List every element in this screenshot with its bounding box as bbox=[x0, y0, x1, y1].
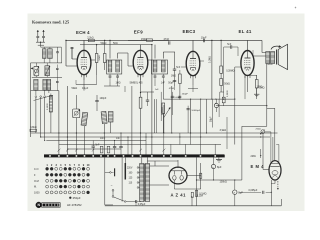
svg-text:1nF: 1nF bbox=[155, 89, 159, 91]
wire CV leads bbox=[35, 63, 37, 66]
svg-text:1MΩ: 1MΩ bbox=[171, 76, 176, 78]
capacitor C 0005 bbox=[262, 191, 264, 194]
svg-text:250μF: 250μF bbox=[73, 196, 81, 200]
svg-text:0,05μF: 0,05μF bbox=[138, 203, 146, 206]
fuse F1 bbox=[200, 173, 202, 178]
wire IF1 bottom bbox=[109, 82, 111, 86]
coil L5 osc bbox=[108, 112, 113, 123]
wire drops to bar bbox=[120, 133, 122, 145]
svg-text:50kΩ: 50kΩ bbox=[101, 42, 107, 45]
wire screen bus bbox=[80, 44, 152, 46]
tube U2 EF9 bbox=[133, 50, 148, 74]
capacitor C47 inline bbox=[168, 41, 170, 44]
svg-text:50pF: 50pF bbox=[168, 83, 174, 85]
speaker LS1 bbox=[276, 50, 278, 65]
capacitor C det cluster1 bbox=[171, 95, 174, 97]
wire U2 cathode bbox=[140, 80, 142, 92]
svg-text:ECH 4: ECH 4 bbox=[76, 30, 90, 35]
resistor R plate EBC bbox=[220, 66, 223, 73]
resistor R cath EL41 bbox=[255, 80, 258, 89]
logo box bbox=[42, 203, 61, 208]
resistor R osc2 bbox=[103, 54, 106, 63]
chassis bar gaps bbox=[49, 155, 51, 157]
svg-text:0,28MΩ: 0,28MΩ bbox=[226, 71, 234, 73]
svg-text:50kΩ: 50kΩ bbox=[99, 55, 101, 61]
resistor R cath EF9 bbox=[139, 97, 142, 108]
electrolytic can bbox=[124, 163, 126, 180]
wire T1 top bbox=[141, 158, 143, 164]
capacitor C det cluster2 bbox=[178, 95, 181, 97]
capacitor trim L1 bbox=[57, 47, 59, 52]
resistor R grid EBC bbox=[222, 97, 225, 103]
chassis bus bar bbox=[44, 154, 225, 157]
svg-text:0,1μF: 0,1μF bbox=[82, 87, 89, 90]
svg-text:8μF: 8μF bbox=[217, 165, 222, 169]
svg-text:50kΩ: 50kΩ bbox=[72, 87, 78, 90]
wire bus y133 bbox=[31, 132, 278, 134]
wire bus y137 bbox=[40, 136, 270, 138]
wire verticals mid bbox=[151, 45, 153, 155]
wire el41 plate bbox=[247, 39, 249, 41]
transformer IF2 sec bbox=[161, 60, 165, 72]
resistor R2 6.8k bbox=[30, 129, 37, 131]
svg-text:10000pF: 10000pF bbox=[191, 110, 200, 112]
wire mains drop bbox=[104, 157, 106, 205]
transformer L1 primary bbox=[43, 49, 47, 59]
svg-text:100pF: 100pF bbox=[100, 97, 107, 100]
node antenna junction bbox=[40, 42, 41, 43]
svg-text:250pF: 250pF bbox=[182, 94, 189, 96]
capacitor C 100p bbox=[95, 100, 98, 102]
potentiometer VOL bbox=[190, 99, 192, 133]
svg-text:SIMBOL 455: SIMBOL 455 bbox=[130, 83, 144, 85]
capacitor C det cluster3 bbox=[187, 108, 190, 110]
transformer L1 secondary bbox=[48, 49, 53, 59]
svg-text:10nF: 10nF bbox=[201, 36, 207, 39]
logo emblem bbox=[36, 202, 42, 208]
variable capacitor CV2gang bbox=[45, 66, 50, 76]
switch SW mains bbox=[112, 196, 114, 198]
electrolytic C8a bbox=[211, 164, 215, 168]
wire under U1 bbox=[76, 84, 97, 86]
capacitor C row2 bbox=[119, 146, 122, 148]
transformer T2 output bbox=[266, 52, 270, 64]
resistor R 150 inline bbox=[147, 39, 153, 42]
resistor R vol bbox=[179, 74, 182, 84]
svg-text:50μF: 50μF bbox=[210, 116, 213, 122]
svg-text:50kΩ: 50kΩ bbox=[224, 83, 230, 85]
svg-text:EBC3: EBC3 bbox=[183, 29, 196, 34]
svg-text:47nF: 47nF bbox=[164, 38, 170, 41]
wire y105 to eye bbox=[216, 105, 267, 107]
wire top bus bbox=[66, 39, 262, 41]
svg-text:5nF: 5nF bbox=[176, 67, 181, 69]
wire det drops bbox=[171, 86, 173, 133]
transformer IF1 box bbox=[107, 60, 122, 74]
capacitor antenna series bbox=[36, 36, 39, 38]
wire U3 cath net bbox=[192, 85, 194, 92]
svg-text:1nF: 1nF bbox=[116, 138, 121, 140]
capacitor C mains bbox=[135, 200, 137, 203]
svg-text:C.O: C.O bbox=[34, 168, 39, 171]
wire bottom run bbox=[270, 180, 272, 206]
wire IF2 top bbox=[154, 45, 156, 59]
resistor R1 0.1M vertical bbox=[49, 96, 52, 113]
wire U2 pins bbox=[140, 45, 142, 51]
svg-text:Kosmovox mod. 125: Kosmovox mod. 125 bbox=[32, 20, 69, 25]
transformer IF2 pri bbox=[153, 60, 157, 72]
resistor R det bbox=[162, 103, 165, 114]
wire to coil top bbox=[40, 42, 42, 45]
tube U4 EL41 bbox=[241, 51, 254, 76]
coil L4 osc bbox=[101, 111, 107, 123]
transformer T1 power bbox=[140, 164, 144, 202]
plug P1 bbox=[112, 189, 114, 191]
svg-text:~: ~ bbox=[111, 184, 113, 188]
wire osc vertical bbox=[58, 91, 60, 155]
capacitor C af couple bbox=[202, 39, 204, 43]
tube U1 ECH4 bbox=[77, 50, 91, 74]
tube U3 EBC3 bbox=[186, 51, 200, 75]
wire grid left bbox=[66, 65, 77, 67]
wire U4 pins bbox=[247, 40, 249, 50]
svg-text:5nF: 5nF bbox=[227, 44, 232, 46]
capacitor C osc grid bbox=[71, 47, 74, 49]
wire lower right net bbox=[196, 157, 198, 180]
svg-text:47kΩ: 47kΩ bbox=[169, 88, 175, 90]
svg-text:8μF: 8μF bbox=[238, 191, 243, 195]
svg-text:1MΩ: 1MΩ bbox=[259, 87, 264, 90]
coil L3 osc bbox=[81, 112, 88, 126]
transformer T1 taps bbox=[137, 167, 139, 169]
svg-text:50Ω: 50Ω bbox=[113, 42, 118, 45]
variable capacitor CV1 bbox=[34, 66, 39, 76]
wire mains bottom bbox=[135, 202, 137, 205]
wire cv3 bbox=[75, 95, 77, 109]
potentiometer eye 25k bbox=[242, 125, 267, 127]
capacitor C grid EL41 bbox=[230, 45, 232, 48]
svg-text:1MΩ: 1MΩ bbox=[116, 83, 121, 85]
wire af vertical bbox=[211, 40, 213, 99]
wire bus y149 bbox=[67, 148, 121, 150]
speaker field arrow bbox=[271, 46, 280, 49]
svg-text:EF9: EF9 bbox=[134, 30, 143, 35]
svg-text:100kΩ: 100kΩ bbox=[220, 181, 227, 184]
wire L1 bottoms bbox=[43, 58, 45, 63]
capacitor C det1 bbox=[173, 68, 176, 70]
wire IF2 sec drop bbox=[162, 80, 164, 99]
svg-text:E M 4: E M 4 bbox=[251, 164, 265, 169]
svg-text:A Z 41: A Z 41 bbox=[171, 192, 187, 197]
svg-text:10nF: 10nF bbox=[100, 138, 106, 140]
electrolytic C8b bbox=[233, 190, 237, 194]
wire em4 below bbox=[274, 180, 276, 184]
capacitor C det2 bbox=[173, 80, 176, 82]
wire L2 bottom drops bbox=[35, 90, 37, 95]
capacitor trim mid bbox=[56, 65, 58, 69]
transformer IF2 box bbox=[152, 60, 168, 74]
svg-text:EL 41: EL 41 bbox=[239, 29, 252, 34]
svg-text:M.: M. bbox=[34, 186, 37, 189]
svg-text:3,9kΩ: 3,9kΩ bbox=[220, 129, 227, 132]
electrolytic C cath bbox=[214, 103, 218, 107]
svg-text:220V: 220V bbox=[127, 168, 133, 170]
svg-text:2MΩ: 2MΩ bbox=[251, 155, 256, 158]
wire em4 leads bbox=[272, 137, 274, 162]
svg-text:1,15A: 1,15A bbox=[197, 194, 204, 197]
svg-text:0,1MΩ: 0,1MΩ bbox=[47, 103, 49, 110]
capacitor IF2 trim bbox=[154, 75, 157, 77]
svg-text:HF 4784/52: HF 4784/52 bbox=[67, 203, 82, 207]
wire U1 cath bbox=[83, 80, 85, 91]
wire U1 pins bbox=[83, 40, 85, 50]
transformer IF1 sec bbox=[116, 60, 120, 72]
wire bus y140 bbox=[46, 140, 146, 142]
svg-text:1000: 1000 bbox=[34, 192, 40, 195]
capacitor trim L2 bbox=[56, 77, 58, 81]
tube U5 AZ41 bbox=[169, 167, 187, 184]
wire osc drops bbox=[75, 126, 77, 155]
node bus dots bbox=[58, 132, 59, 133]
wire az41 bottom bbox=[173, 180, 175, 189]
ground el41 bbox=[254, 93, 259, 95]
wire det bus bbox=[163, 98, 235, 100]
svg-text:O.M: O.M bbox=[34, 180, 39, 183]
svg-text:2500Ω: 2500Ω bbox=[266, 64, 273, 66]
svg-text:+: + bbox=[295, 6, 297, 10]
capacitor IF1 trim bbox=[109, 75, 112, 77]
tube U6 EM4 bbox=[269, 161, 281, 180]
switch wiper ticks bbox=[58, 149, 61, 152]
wire antenna drop bbox=[37, 38, 39, 43]
transformer L2 secondary bbox=[43, 79, 47, 90]
wire avc2 bbox=[131, 86, 133, 155]
wire AZ41 out bbox=[187, 175, 201, 177]
resistor R osc 50k bbox=[95, 54, 98, 63]
svg-text:25kΩ: 25kΩ bbox=[256, 128, 262, 130]
capacitor C ef9 k bbox=[146, 99, 149, 101]
legend 250uF bbox=[69, 197, 71, 199]
transformer IF1 pri bbox=[108, 60, 112, 72]
svg-text:0,1MΩ: 0,1MΩ bbox=[210, 56, 212, 63]
wire em4 net bbox=[224, 155, 226, 157]
transformer L2 primary bbox=[34, 79, 38, 90]
wire bus y144 bbox=[59, 144, 221, 146]
antenna terminal A1 bbox=[37, 30, 39, 36]
svg-text:0,005μF: 0,005μF bbox=[249, 189, 258, 192]
wire det cluster verts bbox=[156, 99, 158, 133]
variable capacitor CV3 bbox=[73, 109, 80, 118]
node top bus dots bbox=[65, 40, 66, 41]
svg-text:6,8kΩ: 6,8kΩ bbox=[30, 126, 37, 129]
switch S1 contacts bbox=[35, 96, 37, 98]
capacitor C pad bbox=[92, 145, 95, 147]
wire avc bus bbox=[31, 90, 59, 92]
antenna terminal A2 bbox=[43, 30, 45, 36]
wire left drops bbox=[35, 98, 37, 134]
capacitor C row1 bbox=[113, 146, 116, 148]
ground chassis bbox=[216, 159, 222, 161]
wire v 200-234 bbox=[200, 110, 202, 133]
wire T1 secondary right bbox=[150, 165, 169, 167]
wire U3 pins bbox=[192, 40, 194, 51]
wire ebc net bbox=[206, 99, 208, 133]
wire IF1 top bbox=[109, 40, 111, 58]
svg-text:0,5MΩ: 0,5MΩ bbox=[227, 90, 229, 97]
scan paper area bbox=[28, 14, 305, 212]
